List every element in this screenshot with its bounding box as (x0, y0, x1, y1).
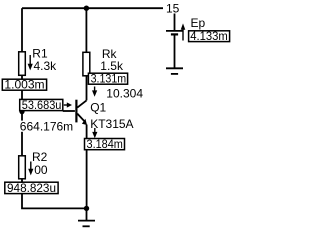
arrow R2 (down) (30, 162, 32, 171)
transistor Q1 base bar (75, 100, 77, 123)
svg-text:1.003m: 1.003m (4, 80, 44, 92)
svg-text:3.184m: 3.184m (87, 139, 123, 151)
svg-text:10.304: 10.304 (106, 87, 143, 101)
arrow emitter current (down) (94, 128, 96, 133)
value box 3.184m (85, 139, 125, 150)
wire box 1.003m to box 53.683u (21, 90, 23, 99)
svg-text:KT315A: KT315A (90, 117, 133, 131)
junction dot bottom (emitter/ground tee) (84, 206, 89, 211)
ground left (78, 221, 95, 227)
wire battery to ground (174, 35, 176, 69)
svg-text:Q1: Q1 (90, 101, 106, 115)
transistor Q1 emitter arrowhead (82, 119, 87, 125)
battery Ep plates (166, 31, 183, 35)
wire emitter vertical (86, 125, 88, 209)
value box 1.003m (2, 79, 46, 90)
svg-text:4.3k: 4.3k (34, 59, 58, 73)
value box 3.131m (88, 73, 127, 84)
arrow R1 (down) (29, 55, 31, 65)
svg-text:948.823u: 948.823u (7, 183, 56, 195)
arrow collector current (down) (94, 87, 96, 92)
wire bottom left corner run (22, 194, 87, 209)
value 664.176m (over wire) (19, 121, 73, 132)
wire Rk bottom through box to collector (86, 76, 88, 100)
resistor Rk (83, 52, 90, 76)
junction dot top (Rk tap) (84, 6, 89, 11)
wire Rk branch vertical (85, 8, 87, 52)
svg-text:15: 15 (166, 2, 180, 16)
value box 948.823u (5, 182, 58, 193)
wire base branch down to R2 (21, 111, 23, 156)
junction dot at base tee (19, 109, 24, 114)
svg-text:00: 00 (34, 163, 48, 177)
ground right (166, 68, 183, 74)
svg-text:1.5k: 1.5k (100, 59, 124, 73)
wire R2 bottom to box 948.823u (21, 179, 23, 182)
wire collector diagonal (77, 100, 86, 107)
wire emitter junction to ground (86, 208, 88, 220)
svg-text:3.131m: 3.131m (91, 74, 127, 86)
wire emitter diagonal (77, 114, 85, 123)
svg-text:4.133m: 4.133m (190, 31, 228, 43)
svg-text:Ep: Ep (191, 16, 206, 30)
arrow base current (right) (64, 104, 68, 106)
wire battery drop (174, 14, 176, 31)
wire R1 bottom to box 1.003m (21, 76, 23, 80)
resistor R2 (19, 156, 26, 179)
svg-text:53.683u: 53.683u (22, 100, 62, 112)
wire left vertical to R1 (21, 8, 23, 51)
resistor R1 (19, 52, 26, 76)
svg-text:664.176m: 664.176m (20, 119, 73, 133)
wire base segment (63, 110, 75, 112)
value box 53.683u (20, 99, 63, 110)
arrow Ep current (up) (182, 28, 184, 41)
value box 4.133m (189, 31, 230, 42)
wire top horizontal (22, 7, 163, 9)
